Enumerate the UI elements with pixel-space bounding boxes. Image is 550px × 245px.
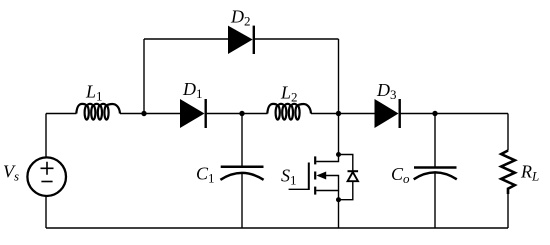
- svg-text:L2: L2: [280, 82, 298, 104]
- wire D2 to right corner: [254, 38, 339, 40]
- wire main horizontal left: [46, 113, 76, 115]
- capacitor C1: [220, 114, 263, 229]
- resistor RL: [501, 114, 515, 229]
- wire top branch left vertical: [143, 39, 145, 114]
- wire top branch right vertical: [338, 39, 340, 114]
- label D2: [230, 7, 251, 29]
- wire bottom: [46, 227, 508, 229]
- wire top branch to D2: [144, 38, 228, 40]
- node Co top: [432, 111, 437, 116]
- wire S1 source to bottom: [338, 200, 340, 228]
- node switch branch top: [336, 111, 341, 116]
- svg-text:Co: Co: [391, 164, 410, 186]
- label RL: [520, 162, 539, 184]
- label L2: [280, 82, 298, 104]
- svg-text:D3: D3: [376, 80, 397, 102]
- node S1 drain: [336, 152, 341, 157]
- label C1: [196, 164, 215, 186]
- transistor S1 (NMOS): [289, 114, 339, 200]
- node at top branch left: [141, 111, 146, 116]
- wire D3 to right corner: [400, 113, 508, 115]
- svg-text:D2: D2: [230, 7, 251, 29]
- label S1: [281, 166, 297, 188]
- node C1 top: [239, 111, 244, 116]
- voltage source Vs: [27, 114, 66, 229]
- node S1 source: [336, 197, 341, 202]
- wire L1 to D1: [120, 113, 180, 115]
- label D1: [182, 79, 203, 101]
- inductor L2: [267, 104, 311, 120]
- label D3: [376, 80, 397, 102]
- body diode of S1: [339, 155, 359, 200]
- svg-text:RL: RL: [520, 162, 539, 184]
- svg-text:L1: L1: [85, 82, 103, 104]
- diode D3: [375, 99, 400, 128]
- svg-text:C1: C1: [196, 164, 215, 186]
- inductor L1: [76, 104, 120, 120]
- wire L2 to D3: [311, 113, 375, 115]
- capacitor Co: [414, 114, 457, 229]
- svg-text:S1: S1: [281, 166, 297, 188]
- wire D1 to L2: [206, 113, 268, 115]
- diode D2: [228, 26, 254, 54]
- label Vs: [3, 162, 19, 184]
- label L1: [85, 82, 103, 104]
- diode D1: [180, 99, 206, 128]
- svg-text:Vs: Vs: [3, 162, 19, 184]
- svg-text:D1: D1: [182, 79, 203, 101]
- label Co: [391, 164, 410, 186]
